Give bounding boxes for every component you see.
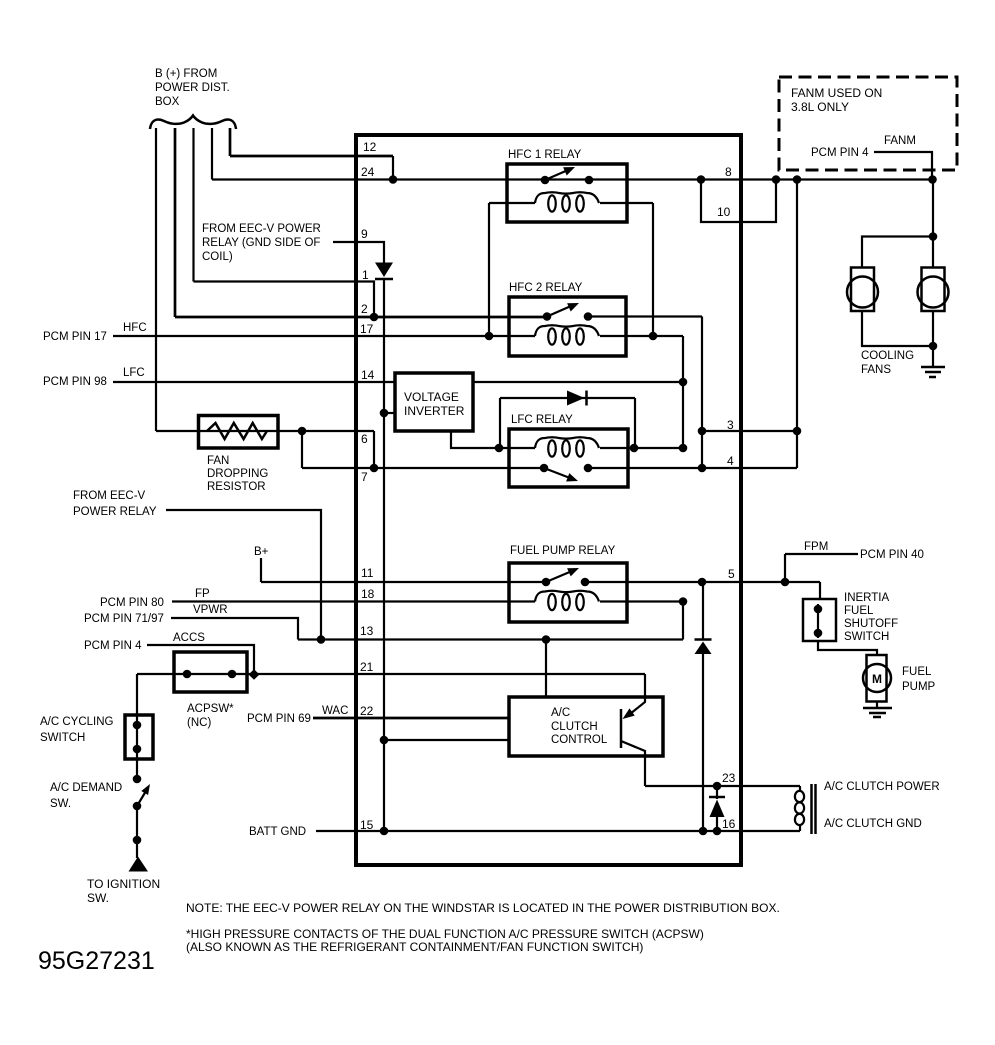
svg-text:1: 1	[362, 268, 369, 282]
svg-text:BATT GND: BATT GND	[249, 826, 306, 838]
svg-text:COOLING: COOLING	[861, 350, 914, 362]
svg-text:PCM PIN 17: PCM PIN 17	[43, 331, 107, 343]
svg-text:(NC): (NC)	[187, 717, 211, 729]
svg-text:FUEL: FUEL	[902, 666, 932, 678]
svg-text:CLUTCH: CLUTCH	[551, 721, 598, 733]
svg-text:PCM PIN 4: PCM PIN 4	[811, 147, 869, 159]
svg-text:11: 11	[361, 566, 374, 580]
svg-text:COIL): COIL)	[202, 251, 233, 263]
svg-text:DROPPING: DROPPING	[207, 468, 268, 480]
svg-text:PCM PIN 4: PCM PIN 4	[84, 640, 142, 652]
svg-text:7: 7	[361, 470, 368, 484]
svg-text:13: 13	[360, 624, 374, 638]
svg-text:RESISTOR: RESISTOR	[207, 481, 266, 493]
svg-text:FANM USED ON: FANM USED ON	[791, 86, 882, 100]
svg-text:CONTROL: CONTROL	[551, 734, 608, 746]
svg-text:INERTIA: INERTIA	[844, 592, 889, 604]
svg-text:16: 16	[722, 817, 736, 831]
svg-text:A/C CYCLING: A/C CYCLING	[40, 716, 114, 728]
svg-text:8: 8	[725, 165, 732, 179]
svg-text:PCM PIN 71/97: PCM PIN 71/97	[84, 613, 164, 625]
svg-text:PCM PIN 80: PCM PIN 80	[100, 597, 164, 609]
svg-text:HFC 2 RELAY: HFC 2 RELAY	[509, 282, 583, 294]
svg-text:FANS: FANS	[861, 364, 891, 376]
svg-text:2: 2	[361, 302, 368, 316]
svg-text:FROM EEC-V: FROM EEC-V	[73, 490, 146, 502]
svg-text:95G27231: 95G27231	[38, 947, 155, 975]
svg-text:TO IGNITION: TO IGNITION	[87, 877, 160, 891]
svg-text:FANM: FANM	[884, 135, 916, 147]
svg-text:INVERTER: INVERTER	[404, 404, 465, 418]
svg-text:SW.: SW.	[50, 798, 71, 810]
svg-text:RELAY (GND SIDE OF: RELAY (GND SIDE OF	[202, 237, 320, 249]
svg-text:FP: FP	[195, 588, 210, 600]
svg-text:(ALSO KNOWN AS THE REFRIGERANT: (ALSO KNOWN AS THE REFRIGERANT CONTAINME…	[186, 940, 643, 954]
svg-text:LFC: LFC	[123, 367, 145, 379]
svg-text:10: 10	[717, 205, 731, 219]
svg-text:5: 5	[728, 567, 735, 581]
svg-text:22: 22	[360, 704, 374, 718]
svg-text:*HIGH PRESSURE CONTACTS OF THE: *HIGH PRESSURE CONTACTS OF THE DUAL FUNC…	[186, 927, 704, 941]
svg-text:M: M	[872, 672, 882, 686]
svg-text:BOX: BOX	[155, 96, 180, 108]
svg-text:17: 17	[360, 322, 374, 336]
svg-text:VOLTAGE: VOLTAGE	[404, 390, 459, 404]
svg-text:3: 3	[727, 418, 734, 432]
svg-text:NOTE: THE EEC-V POWER RELAY ON: NOTE: THE EEC-V POWER RELAY ON THE WINDS…	[186, 901, 780, 915]
svg-text:POWER DIST.: POWER DIST.	[155, 82, 230, 94]
svg-text:15: 15	[360, 818, 374, 832]
svg-text:FUEL PUMP RELAY: FUEL PUMP RELAY	[510, 545, 616, 557]
svg-text:FAN: FAN	[207, 455, 229, 467]
svg-text:12: 12	[363, 140, 377, 154]
svg-text:23: 23	[722, 771, 736, 785]
svg-text:ACPSW*: ACPSW*	[187, 703, 234, 715]
svg-text:LFC RELAY: LFC RELAY	[511, 414, 573, 426]
svg-text:9: 9	[361, 227, 368, 241]
svg-text:A/C CLUTCH POWER: A/C CLUTCH POWER	[824, 781, 940, 793]
svg-text:24: 24	[361, 165, 375, 179]
svg-text:SHUTOFF: SHUTOFF	[844, 618, 898, 630]
svg-text:A/C: A/C	[551, 707, 570, 719]
svg-text:21: 21	[360, 660, 374, 674]
svg-text:14: 14	[361, 368, 375, 382]
svg-text:B+: B+	[254, 546, 269, 558]
svg-text:SW.: SW.	[87, 891, 109, 905]
svg-text:PCM PIN 98: PCM PIN 98	[43, 376, 107, 388]
svg-text:A/C CLUTCH GND: A/C CLUTCH GND	[824, 818, 922, 830]
svg-text:18: 18	[361, 587, 375, 601]
svg-text:HFC: HFC	[123, 322, 147, 334]
svg-text:4: 4	[727, 454, 734, 468]
svg-text:6: 6	[361, 432, 368, 446]
svg-text:PUMP: PUMP	[902, 681, 936, 693]
svg-text:HFC 1 RELAY: HFC 1 RELAY	[508, 149, 582, 161]
svg-text:WAC: WAC	[322, 705, 348, 717]
svg-text:SWITCH: SWITCH	[40, 732, 85, 744]
svg-text:PCM PIN 40: PCM PIN 40	[860, 549, 924, 561]
svg-text:3.8L ONLY: 3.8L ONLY	[791, 100, 849, 114]
svg-text:POWER RELAY: POWER RELAY	[73, 506, 157, 518]
svg-text:FROM EEC-V POWER: FROM EEC-V POWER	[202, 223, 321, 235]
svg-text:ACCS: ACCS	[173, 632, 205, 644]
svg-text:A/C DEMAND: A/C DEMAND	[50, 782, 122, 794]
svg-text:FUEL: FUEL	[844, 605, 874, 617]
svg-text:SWITCH: SWITCH	[844, 631, 889, 643]
svg-text:PCM PIN 69: PCM PIN 69	[247, 713, 311, 725]
svg-text:VPWR: VPWR	[193, 604, 228, 616]
svg-text:B (+) FROM: B (+) FROM	[155, 68, 217, 80]
svg-text:FPM: FPM	[804, 541, 828, 553]
